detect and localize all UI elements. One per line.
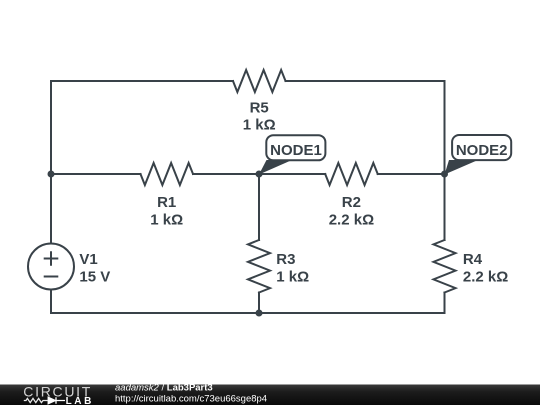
- wire R4 bottom to bottom rail: [444, 293, 446, 314]
- node NODE1 callout pointer: [259, 160, 292, 175]
- svg-text:15 V: 15 V: [79, 268, 110, 285]
- wire bottom rail: [51, 312, 445, 314]
- wire V1 bottom stub: [50, 290, 52, 314]
- wire mid rail: left junction to R1: [51, 173, 141, 175]
- svg-text:aadamsk2 / Lab3Part3: aadamsk2 / Lab3Part3: [115, 383, 213, 394]
- svg-text:NODE1: NODE1: [270, 142, 322, 159]
- svg-text:1 kΩ: 1 kΩ: [243, 117, 276, 134]
- svg-text:2.2 kΩ: 2.2 kΩ: [329, 211, 374, 228]
- junction dot R3 bottom: [256, 310, 263, 317]
- svg-text:R5: R5: [250, 100, 269, 117]
- wire mid rail: R2 to NODE2: [378, 173, 445, 175]
- node NODE2 callout box: [452, 135, 511, 160]
- junction dot NODE1: [256, 171, 263, 178]
- resistor R2 (zigzag): [325, 163, 378, 185]
- resistor R5 (zigzag): [233, 70, 286, 92]
- V1 minus sign: [45, 276, 58, 278]
- svg-text:NODE2: NODE2: [456, 142, 508, 159]
- svg-text:V1: V1: [79, 251, 97, 268]
- wire mid rail: NODE1 to R2: [259, 173, 325, 175]
- svg-text:1 kΩ: 1 kΩ: [276, 268, 309, 285]
- svg-text:2.2 kΩ: 2.2 kΩ: [463, 268, 508, 285]
- wire NODE1 down to R3: [258, 174, 260, 240]
- wire left rail (top-left corner down to V1 top): [50, 81, 52, 244]
- resistor R3 (vertical zigzag): [248, 240, 270, 293]
- V1 plus sign: [45, 252, 58, 265]
- node NODE2 callout pointer: [445, 160, 479, 175]
- logo resistor squiggle: [24, 398, 48, 402]
- logo diode symbol: [48, 397, 65, 403]
- svg-text:http://circuitlab.com/c73eu66s: http://circuitlab.com/c73eu66sge8p4: [115, 393, 267, 404]
- wire NODE2 down to R4: [444, 174, 446, 240]
- wire top rail left (corner to R5): [51, 80, 233, 82]
- wire right rail upper (corner down to NODE2): [444, 81, 446, 174]
- svg-text:LAB: LAB: [66, 396, 94, 405]
- svg-text:R1: R1: [157, 194, 176, 211]
- wire mid rail: R1 to NODE1: [193, 173, 259, 175]
- voltage source V1 circle: [28, 244, 74, 290]
- footer bar: [0, 385, 540, 405]
- junction dot NODE2: [441, 171, 448, 178]
- node NODE1 callout box: [266, 135, 325, 160]
- svg-text:R4: R4: [463, 251, 483, 268]
- svg-text:R2: R2: [342, 194, 361, 211]
- wire R3 bottom to bottom rail: [258, 293, 260, 314]
- wire top rail right (R5 to top-right corner): [286, 80, 445, 82]
- svg-text:R3: R3: [276, 251, 295, 268]
- junction dot left rail / R1: [48, 171, 55, 178]
- resistor R1 (zigzag): [141, 163, 194, 185]
- resistor R4 (vertical zigzag): [434, 240, 456, 293]
- svg-text:1 kΩ: 1 kΩ: [150, 211, 183, 228]
